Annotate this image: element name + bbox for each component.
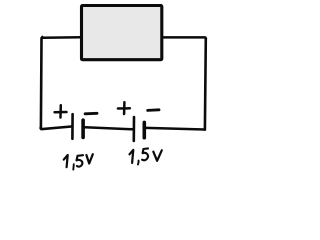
battery BT1 positive plate (long) <box>71 114 74 139</box>
wire: right vertical branch <box>204 39 208 130</box>
battery BT2 negative plate (short) <box>143 122 147 137</box>
polarity label - of BT1 <box>85 112 97 115</box>
wire: left vertical branch <box>41 37 42 128</box>
component box (load) R1 <box>82 6 162 60</box>
wire: top-right corner to box right terminal <box>163 37 206 38</box>
value label 1,5V of BT1 (handwritten) <box>64 154 93 169</box>
wire: bottom-left segment to battery BT1 <box>41 127 72 130</box>
polarity label + of BT1 <box>55 105 67 117</box>
wire: battery BT2 to bottom-right corner <box>146 128 204 130</box>
battery BT2 positive plate (long) <box>133 117 136 141</box>
polarity label - of BT2 <box>148 108 159 111</box>
wire: between battery BT1 and battery BT2 <box>85 127 133 129</box>
polarity label + of BT2 <box>118 102 130 114</box>
value label 1,5V of BT2 (handwritten) <box>130 148 162 164</box>
battery BT1 negative plate (short) <box>81 120 85 137</box>
wire: box left terminal to top-left corner <box>43 36 82 39</box>
